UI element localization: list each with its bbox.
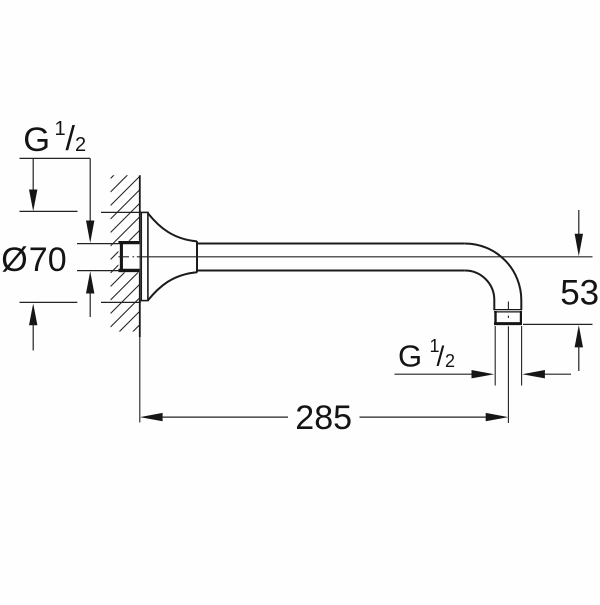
outlet edge extension lines	[494, 326, 496, 386]
G1/2 bottom dimension line right	[522, 370, 545, 378]
G 1/2 top label leader	[20, 158, 91, 222]
svg-text:G: G	[23, 121, 50, 159]
dia70 top arrow	[32, 158, 34, 190]
53 top arrow at arm centerline	[578, 210, 580, 235]
wall extension line for 285 dimension	[139, 337, 141, 423]
svg-text:G: G	[398, 338, 422, 373]
53 bottom arrow at outlet face	[575, 325, 583, 347]
svg-text:2: 2	[75, 134, 86, 156]
outlet collar	[494, 310, 522, 325]
285 dimension line	[140, 413, 163, 421]
svg-text:70: 70	[29, 241, 67, 279]
dia70 bottom arrow	[29, 303, 37, 325]
horizontal centerline	[119, 256, 593, 258]
svg-text:285: 285	[295, 399, 352, 437]
svg-text:/: /	[437, 341, 445, 372]
outlet face extension line	[523, 323, 593, 325]
socket top extension line	[77, 243, 118, 245]
flange base plate	[141, 212, 149, 300]
wall face line	[139, 175, 141, 337]
dia70 top extension lines	[20, 210, 78, 212]
svg-text:Ø: Ø	[1, 241, 27, 279]
shower arm tube	[197, 244, 521, 311]
label dia 70	[1, 241, 66, 279]
svg-text:/: /	[66, 120, 76, 158]
arrow down to socket top	[86, 221, 94, 244]
socket bottom extension line	[77, 270, 118, 272]
svg-text:1: 1	[55, 118, 66, 140]
dia70 bottom extension lines	[20, 301, 78, 303]
outlet vertical centerline	[507, 302, 509, 424]
svg-text:2: 2	[445, 351, 455, 371]
flange bell	[148, 213, 197, 300]
label G 1/2 top	[23, 118, 86, 159]
arrow up to socket bottom	[86, 271, 94, 293]
G1/2 bottom dimension line left	[395, 373, 474, 375]
label G 1/2 bottom	[398, 336, 455, 373]
arm bend	[465, 244, 522, 311]
threaded socket G1/2 behind wall	[118, 241, 139, 273]
svg-text:53: 53	[560, 274, 599, 313]
